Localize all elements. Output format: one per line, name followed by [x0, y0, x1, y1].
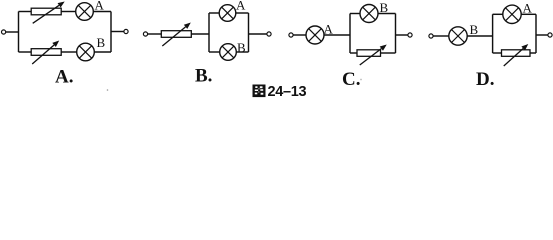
svg-text:A: A [95, 0, 105, 13]
svg-text:B: B [237, 40, 246, 55]
svg-text:A: A [324, 22, 334, 37]
svg-text:24–13: 24–13 [268, 84, 307, 100]
svg-text:A: A [236, 0, 246, 13]
svg-text:D.: D. [476, 69, 494, 90]
svg-text:A: A [523, 1, 533, 16]
svg-text:B: B [97, 35, 106, 50]
svg-text:A.: A. [55, 67, 73, 88]
svg-text:B: B [470, 22, 479, 37]
svg-text:C.: C. [342, 69, 360, 90]
svg-text:B: B [380, 0, 389, 15]
svg-text:B.: B. [195, 66, 212, 87]
